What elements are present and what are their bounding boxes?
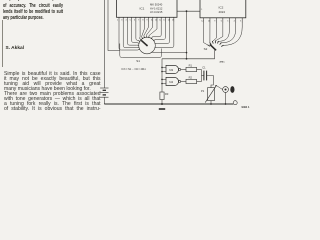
IC IC2 binary counter body (4024) — [200, 0, 246, 18]
svg-text:S2: S2 — [204, 47, 208, 51]
wire gate input bus x=162 — [161, 59, 163, 92]
svg-text:3: 3 — [240, 20, 241, 22]
junction dot on clock wire — [186, 10, 188, 12]
IC IC1 top-octave generator body (MK 50240) — [117, 0, 178, 17]
svg-text:8: 8 — [142, 20, 143, 22]
wire C1 to P1 top — [207, 76, 214, 88]
intro blurb text block — [3, 0, 63, 2]
S2 contact ticks — [208, 40, 224, 46]
wire N4 output to R2 — [181, 81, 186, 83]
wire R1 to junction — [197, 69, 202, 71]
svg-text:IC2: IC2 — [219, 6, 224, 10]
svg-text:IC1: IC1 — [140, 6, 145, 10]
svg-text:15: 15 — [172, 20, 174, 22]
wire P1 bottom to rail — [210, 101, 212, 104]
wire R3 bottom lead — [161, 100, 163, 105]
wire vertical from IC2 clock node down to H2 — [186, 11, 188, 59]
rotary switch S1 wafer circle — [139, 37, 156, 54]
svg-text:6: 6 — [221, 20, 222, 22]
S1 wiper arm — [141, 40, 148, 46]
nand gate N3 — [161, 65, 180, 73]
battery BT1 — [100, 88, 108, 104]
svg-text:AY-3-0215: AY-3-0215 — [150, 10, 163, 14]
earphone symbol — [230, 86, 234, 93]
wire junction to C1 — [202, 75, 204, 77]
nand gate N4 — [161, 77, 180, 85]
svg-text:7: 7 — [138, 20, 139, 22]
wires from IC1 pins fanning to S1 contacts — [119, 22, 174, 50]
svg-text:12: 12 — [201, 20, 203, 22]
terminal circle at rail end — [233, 101, 237, 105]
wire second supply line — [108, 0, 120, 51]
resistor R3 — [160, 92, 169, 100]
svg-text:C1: C1 — [202, 66, 206, 70]
body paragraph — [4, 72, 101, 77]
capacitor C1 — [202, 66, 206, 81]
svg-text:2: 2 — [117, 20, 118, 22]
vertical rule left of byline — [1, 20, 4, 67]
rotary switch S1 enclosure box — [120, 44, 162, 58]
svg-text:R1: R1 — [189, 63, 193, 67]
svg-text:4024: 4024 — [219, 10, 226, 14]
svg-text:P1: P1 — [201, 89, 205, 93]
junction dot jack/rail — [225, 103, 227, 105]
svg-text:4: 4 — [125, 20, 126, 22]
svg-text:IC3 = N1 ... N4 = 4011: IC3 = N1 ... N4 = 4011 — [122, 68, 147, 71]
svg-text:R3: R3 — [165, 92, 169, 96]
svg-text:MK 50240: MK 50240 — [150, 3, 163, 7]
svg-text:9: 9 — [147, 20, 148, 22]
output jack (circle with dot) — [223, 87, 229, 93]
junction dot S1 wiper / clock vertical — [186, 52, 188, 54]
svg-text:14: 14 — [168, 20, 170, 22]
svg-text:13: 13 — [163, 20, 165, 22]
wire S1 wiper output to IC2 clock line — [151, 51, 186, 54]
svg-text:12: 12 — [159, 20, 161, 22]
svg-text:6: 6 — [134, 20, 135, 22]
svg-text:11: 11 — [208, 20, 210, 22]
svg-text:N4: N4 — [169, 80, 173, 84]
wire N3 output to R1 — [181, 69, 186, 71]
wires from IC2 pins fanning to S2 contacts — [204, 23, 243, 45]
wire output junction vertical — [201, 70, 203, 82]
resistor R2 — [186, 75, 197, 83]
potentiometer P1 — [201, 85, 217, 102]
S2 wiper arm — [210, 44, 217, 50]
svg-text:5: 5 — [227, 20, 228, 22]
svg-text:9491 1: 9491 1 — [242, 105, 250, 109]
wire IC1 right edge to IC2 left pin (clock) — [177, 10, 200, 12]
wire supply line to battery — [103, 0, 105, 88]
svg-text:4: 4 — [234, 20, 235, 22]
ground symbol below rail at x=162 — [159, 103, 165, 110]
wire R2 to junction — [197, 81, 202, 83]
svg-text:470n: 470n — [220, 60, 226, 63]
svg-text:S1: S1 — [136, 59, 140, 63]
svg-text:3: 3 — [121, 20, 122, 22]
wire S2 wiper down to gate-input bus — [162, 50, 215, 59]
svg-text:5: 5 — [130, 20, 131, 22]
junction dot P1/rail — [210, 103, 212, 105]
author byline — [6, 46, 25, 51]
svg-text:11: 11 — [155, 20, 157, 22]
svg-text:N3: N3 — [169, 68, 173, 72]
svg-text:10: 10 — [151, 20, 153, 22]
IC2 bottom pins with pin numbers — [201, 18, 242, 23]
resistor R1 — [186, 63, 197, 71]
svg-text:9: 9 — [214, 20, 215, 22]
svg-text:AY-1-0212: AY-1-0212 — [150, 6, 163, 10]
S1 contact ticks — [137, 35, 157, 50]
circuit schematic — [0, 0, 263, 112]
IC1 bottom pins with pin numbers — [117, 17, 174, 22]
junction dot H2 at x=186.5 — [186, 58, 188, 60]
wire ground rail — [104, 103, 233, 105]
wire jack sleeve to rail — [225, 92, 227, 104]
svg-text:R2: R2 — [189, 75, 193, 79]
svg-text:1: 1 — [201, 9, 203, 11]
wire P1 wiper to jack — [216, 86, 222, 90]
